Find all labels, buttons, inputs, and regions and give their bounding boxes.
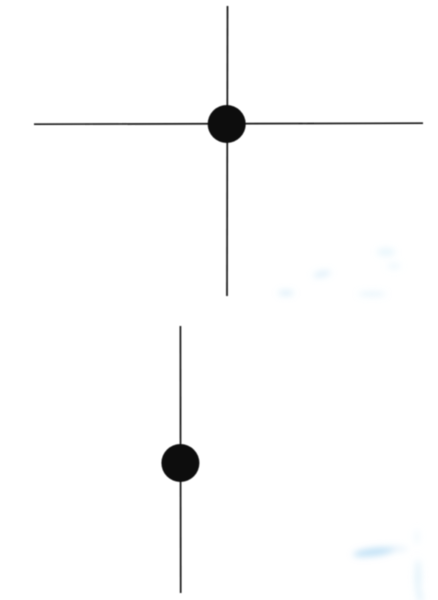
wire: lower vertical wire	[179, 326, 181, 593]
wire: vertical wire of cross junction	[226, 6, 229, 296]
junction dot (4-way connection)	[208, 105, 246, 143]
faint scan smudges (paper artifacts)	[278, 248, 423, 600]
junction dot on lower wire	[161, 444, 199, 482]
wire: horizontal wire of cross junction	[34, 123, 423, 124]
